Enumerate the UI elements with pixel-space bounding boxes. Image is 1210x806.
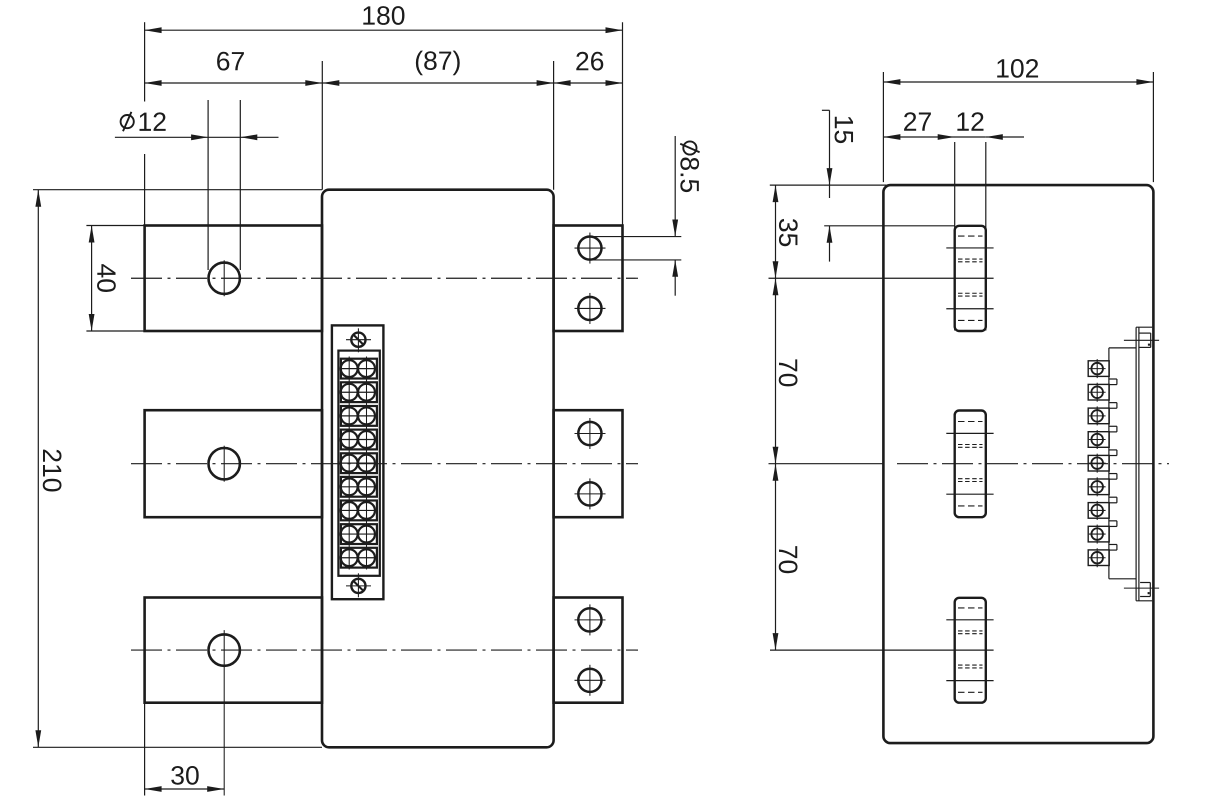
dimension 15 — [822, 109, 830, 111]
terminal cell 4 — [341, 430, 377, 450]
molding step 4 (side view) — [1109, 449, 1117, 451]
molding step 8 (side view) — [1109, 543, 1117, 545]
hole ø8.5 tab 3a — [578, 608, 601, 631]
extension line phase 3 (side view) — [770, 649, 994, 651]
centerline phase 2 (front view) — [131, 463, 638, 465]
right mounting tab 2 (front view) — [554, 410, 623, 517]
dimension 70 lower — [775, 464, 777, 650]
dimension 67 / (87) / 26 extension lines — [321, 61, 323, 190]
hole ø12 phase 2 — [209, 448, 240, 479]
molding step 6 (side view) — [1109, 496, 1117, 498]
terminal cell 5 (side view) — [1088, 455, 1109, 471]
hole ø12 phase 3 vertical centerline extended to 30-dim — [223, 630, 225, 795]
terminal strip bottom screw — [351, 579, 365, 593]
molding step 1 (side view) — [1109, 378, 1117, 380]
extension line slot top (side view) — [824, 225, 955, 227]
right mounting tab 1 (front view) — [554, 226, 623, 332]
centerline phase 2 (side view) — [897, 463, 1169, 465]
text 67 — [217, 52, 244, 71]
extension line phase 2 (side view) — [769, 463, 884, 465]
plate bottom screw (side view) — [1140, 582, 1150, 584]
dimension ø12 extension lines — [207, 100, 209, 270]
molding step 2 (side view) — [1109, 402, 1117, 404]
text (87) — [416, 51, 460, 76]
dimension line 67 (87) 26 — [145, 82, 623, 84]
centerline phase 3 (front view) — [131, 649, 638, 651]
dimension 102 — [883, 81, 1153, 83]
dimension 27 and 12 — [883, 136, 985, 138]
terminal block molding (side view) — [1109, 347, 1136, 349]
side view body outline — [883, 185, 1153, 743]
left busbar tab 2 (front view) — [145, 410, 322, 517]
dimension ø8.5 — [674, 136, 676, 237]
left busbar tab 1 (front view) — [145, 226, 322, 332]
hole ø8.5 tab 2a — [578, 422, 601, 445]
terminal cell 2 — [341, 382, 377, 402]
terminal column centerlines — [348, 357, 350, 570]
molding step 3 (side view) — [1109, 425, 1117, 427]
slot 1 lamination lines — [946, 247, 993, 249]
slot 3 lamination lines — [946, 619, 993, 621]
right mounting tab 3 (front view) — [554, 598, 623, 703]
hole ø8.5 tab 3b — [578, 669, 601, 692]
hole ø8.5 tab 2b — [578, 482, 601, 505]
terminal cell 3 — [341, 406, 377, 426]
terminal strip inner body — [338, 351, 379, 576]
terminal cell 2 (side view) — [1088, 384, 1109, 400]
terminal cell 7 — [341, 501, 377, 521]
terminal cell 9 (side view) — [1088, 550, 1109, 566]
extension line body top (side view) — [770, 184, 887, 186]
terminal cell 9 — [341, 548, 377, 568]
busbar slot 2 (side view) — [955, 411, 986, 518]
terminal cell 6 (side view) — [1088, 479, 1109, 495]
terminal strip plate (side view) — [1135, 327, 1137, 601]
terminal strip outer plate (front view) — [332, 325, 384, 599]
left busbar tab 3 (front view) — [145, 598, 322, 703]
dimension 210 extension lines — [33, 189, 322, 191]
hole ø12 phase 3 — [209, 634, 240, 665]
slot 2 lamination lines — [946, 432, 993, 434]
dimension ø8.5 extension lines — [590, 236, 681, 238]
label ø12 — [121, 115, 134, 128]
dimension 40 extension lines — [86, 225, 144, 227]
dimension 180 extension lines — [144, 22, 146, 101]
hole ø12 phase 1 — [209, 263, 240, 294]
dimension 30 extension line — [144, 703, 146, 796]
terminal cell 5 — [341, 453, 377, 473]
terminal cell 1 — [341, 359, 377, 379]
dimension 40 — [91, 226, 93, 332]
dimension 27 / 12 extension lines — [954, 142, 956, 331]
busbar slot 3 (side view) — [955, 598, 986, 703]
terminal cell 1 (side view) — [1088, 361, 1109, 377]
plate top screw (side view) — [1139, 332, 1150, 334]
dimension 102 extension lines — [882, 72, 884, 182]
centerline phase 1 (front view) — [131, 277, 638, 279]
extension line phase 1 (side view) — [769, 277, 994, 279]
terminal cell 8 (side view) — [1088, 526, 1109, 542]
dimension line ø12 — [115, 136, 279, 138]
terminal cell 8 — [341, 524, 377, 544]
front view body outline — [322, 190, 554, 748]
terminal strip top screw — [351, 333, 365, 347]
terminal cell 3 (side view) — [1088, 408, 1109, 424]
text 26 — [576, 52, 603, 71]
molding step 7 (side view) — [1109, 520, 1117, 522]
dimension 35 — [775, 185, 777, 278]
dimension 180 — [145, 29, 623, 31]
hole ø8.5 tab 1a — [578, 236, 601, 259]
label ø8.5 — [680, 141, 699, 192]
terminal cell 7 (side view) — [1088, 503, 1109, 519]
terminal cell 6 — [341, 477, 377, 497]
dimension 70 upper — [775, 278, 777, 463]
dimension 210 — [37, 190, 39, 748]
hole ø8.5 tab 1b — [578, 297, 601, 320]
busbar slot 1 (side view) — [955, 226, 986, 331]
dimension 30 — [145, 788, 225, 790]
molding step 5 (side view) — [1109, 473, 1117, 475]
terminal cell 4 (side view) — [1088, 432, 1109, 448]
